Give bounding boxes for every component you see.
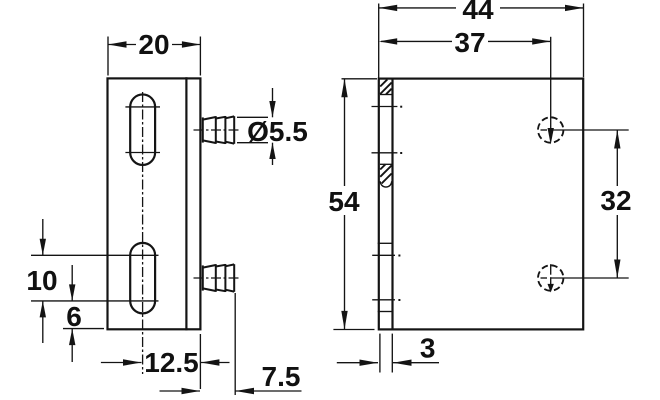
bend line (front view) (185, 78, 187, 329)
svg-text:54: 54 (328, 186, 360, 217)
hatch section upper (380, 79, 392, 94)
svg-text:20: 20 (138, 29, 169, 60)
hole H2 dashed circle (538, 265, 563, 290)
side view web line (391, 79, 393, 330)
dimension 12.5 (101, 334, 230, 389)
strip tick slot1 bottom center (372, 152, 403, 154)
dimension 6 (63, 265, 104, 362)
svg-text:7.5: 7.5 (262, 361, 301, 392)
barbed peg P1 (front view) (203, 116, 234, 144)
hole H1 dashed circle (538, 117, 563, 142)
peg P2 centerline (194, 277, 241, 279)
svg-text:6: 6 (66, 301, 82, 332)
strip tick slot2 bottom edge (378, 311, 394, 313)
dimension 20 (108, 29, 200, 75)
svg-text:Ø5.5: Ø5.5 (247, 116, 308, 147)
svg-text:3: 3 (420, 333, 436, 364)
dimension Ø5.5 (237, 88, 308, 165)
slot S1 arc-center tick bottom (125, 152, 160, 154)
hole H2 vertical centerline with point arrow (548, 264, 554, 292)
svg-text:44: 44 (462, 0, 494, 25)
dimension 32 (600, 130, 631, 278)
dimension 7.5 (160, 293, 302, 395)
dimension 10 (26, 219, 158, 343)
front view plate outline (108, 78, 201, 329)
svg-text:32: 32 (600, 185, 631, 216)
svg-text:10: 10 (26, 265, 57, 296)
dimension 54 (328, 79, 377, 330)
dimension 44 (379, 0, 584, 78)
strip tick slot2 bottom center (372, 299, 400, 301)
hole H1 horizontal centerline (541, 129, 629, 131)
dimension 37 with leader to hole H1 (379, 27, 554, 145)
strip tick slot1 top center (372, 106, 403, 108)
hatch section lower with break arc (380, 164, 392, 187)
svg-text:12.5: 12.5 (144, 347, 199, 378)
peg P1 centerline (194, 129, 241, 131)
dimension 3 (337, 333, 439, 373)
vertical centerline through slots (142, 92, 144, 374)
slot hole S2 (front view, obround) (130, 243, 155, 314)
strip tick slot2 top edge (378, 242, 394, 244)
hole H2 horizontal centerline (541, 277, 629, 279)
side view plate (379, 79, 583, 330)
slot hole S1 (front view, obround) (130, 94, 155, 165)
barbed peg P2 (front view) (203, 264, 234, 292)
slot S1 arc-center tick top (125, 106, 160, 108)
svg-text:37: 37 (454, 27, 485, 58)
strip tick slot2 top center (372, 255, 400, 257)
